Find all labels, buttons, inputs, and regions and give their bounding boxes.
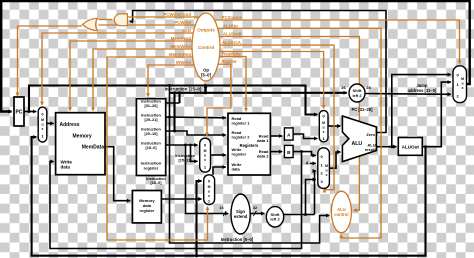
wire Read data 1 to A register	[270, 135, 282, 137]
svg-text:Registers: Registers	[240, 143, 259, 148]
svg-text:M: M	[461, 77, 464, 81]
PC register	[14, 97, 24, 126]
svg-text:x: x	[204, 158, 206, 162]
svg-text:ALUSrcB: ALUSrcB	[223, 32, 242, 37]
svg-text:[20–16]: [20–16]	[144, 132, 158, 136]
ALUSrcB mux	[318, 148, 330, 189]
node instruction bus junction b	[173, 130, 176, 133]
svg-text:[15–0]: [15–0]	[151, 181, 163, 185]
MemtoReg mux	[204, 175, 215, 205]
svg-text:register: register	[140, 208, 155, 213]
svg-text:M: M	[41, 118, 44, 122]
wire Instruction[15-11] jog to RegDst mux input 1	[191, 145, 198, 161]
wire MemtoReg mux output to Write data	[213, 167, 226, 175]
ALU control oval	[331, 191, 351, 233]
svg-text:MemtoReg: MemtoReg	[169, 52, 191, 57]
B register	[284, 145, 293, 157]
svg-text:[15–0]: [15–0]	[146, 146, 158, 150]
svg-text:[25–21]: [25–21]	[144, 118, 158, 122]
svg-text:[5–0]: [5–0]	[201, 73, 211, 78]
svg-text:RegDst: RegDst	[222, 59, 238, 64]
wire Instruction[31-26] from IR	[166, 102, 180, 104]
wire A register to ALUSrcA mux input 1	[293, 134, 317, 139]
svg-text:ALUSrcA: ALUSrcA	[222, 40, 241, 45]
wire PCWrite control to OR gate	[99, 24, 196, 26]
svg-text:PCWriteCond: PCWriteCond	[163, 12, 191, 17]
ALUSrcA mux	[319, 111, 328, 142]
svg-text:MemWrite: MemWrite	[171, 44, 192, 49]
wire shift left 2 output to ALUSrcB mux inputs	[284, 214, 315, 216]
wire Op[5-0] riser into Control	[204, 84, 207, 93]
svg-text:x: x	[208, 194, 210, 198]
svg-text:IRWrite: IRWrite	[176, 60, 191, 65]
svg-text:ALUOut: ALUOut	[402, 145, 420, 150]
svg-text:PCWrite: PCWrite	[174, 20, 191, 25]
ALUOut register	[398, 138, 422, 156]
wire sign extend output to shift left 2	[250, 213, 264, 215]
svg-text:IorD: IorD	[182, 28, 191, 33]
svg-text:address [31–0]: address [31–0]	[408, 88, 437, 93]
svg-text:data 2: data 2	[257, 153, 269, 158]
wire instruction bus vertical b	[173, 93, 175, 131]
node Op[5-0] tap on instruction bus	[204, 91, 207, 94]
wire ALUSrcB control to ALUSrcB mux bottom	[220, 45, 334, 190]
memory block	[56, 113, 105, 175]
wire Read data 2 to B register	[270, 151, 282, 153]
wire Instruction[15-0] drop to sign extend	[186, 145, 229, 214]
wire RegDst mux output to Write register	[211, 154, 226, 156]
wire ALUSrcA control down to ALUSrcA mux	[220, 52, 324, 109]
svg-text:u: u	[323, 126, 325, 130]
instruction register	[136, 99, 165, 176]
wire PC bus up and right to ALUSrcA mux input 0	[29, 86, 317, 115]
svg-text:[15–11]: [15–11]	[179, 159, 193, 163]
svg-text:left 2: left 2	[352, 93, 362, 98]
ALU	[342, 116, 376, 162]
shift left 2 oval (branch)	[266, 207, 283, 227]
svg-text:M: M	[208, 185, 211, 189]
svg-text:x: x	[462, 86, 464, 90]
svg-text:x: x	[42, 127, 44, 131]
svg-text:M: M	[204, 149, 207, 153]
wire ALUOut output to PCSource mux input 1	[422, 82, 451, 147]
svg-text:Instruction: Instruction	[175, 154, 195, 158]
svg-text:extend: extend	[234, 214, 248, 219]
svg-text:data: data	[232, 167, 241, 172]
svg-text:x: x	[323, 130, 325, 134]
wire IRWrite control down to instruction register	[148, 65, 194, 97]
RegDst mux	[200, 138, 211, 172]
svg-text:u: u	[41, 123, 43, 127]
wire IorD mux output to memory Address	[47, 122, 54, 124]
svg-text:M: M	[325, 164, 328, 168]
svg-text:register: register	[144, 166, 159, 171]
wire ALUSrcA mux output to ALU	[328, 125, 340, 127]
wire PC-feedback from PCSource mux around top edge to PC	[1, 1, 470, 112]
wire RegWrite control down to Registers	[219, 57, 246, 112]
svg-text:u: u	[204, 154, 206, 158]
svg-text:result: result	[365, 147, 377, 152]
svg-text:ALU: ALU	[352, 141, 363, 147]
svg-text:[31–26]: [31–26]	[144, 104, 158, 108]
node instruction bus junction d	[178, 91, 181, 94]
wire B register to ALUSrcB mux input 0	[293, 152, 316, 156]
wire MemData to memory data register	[105, 147, 130, 201]
svg-text:u: u	[326, 169, 328, 173]
OR gate (PCWrite OR ...), pointing left	[83, 18, 98, 30]
wire MemWrite control down to memory	[93, 49, 192, 111]
svg-text:26: 26	[341, 85, 346, 90]
svg-text:MemRead: MemRead	[171, 36, 192, 41]
wire ALUOp control around bottom to ALU control	[218, 28, 381, 238]
wire PC output to IorD mux input 0	[24, 111, 36, 113]
wire ALUSrcB mux output to ALU	[329, 152, 340, 168]
shift left 2 oval (jump)	[349, 84, 365, 102]
wire AND gate output to OR gate input	[99, 19, 113, 21]
svg-text:ALUOp: ALUOp	[223, 23, 238, 28]
svg-text:PCSource: PCSource	[222, 15, 243, 20]
svg-text:Outputs: Outputs	[197, 28, 215, 33]
svg-text:data: data	[61, 164, 71, 169]
svg-text:Instruction [25–0]: Instruction [25–0]	[165, 87, 202, 92]
wire ALUOp control b to ALU control right side	[219, 37, 359, 211]
wire riser to ALUSrcB mux input 3	[306, 180, 316, 215]
svg-text:32: 32	[253, 206, 257, 210]
AND gate (PCWriteCond AND Zero), pointing left	[114, 14, 127, 26]
wire Instruction[25-21] from IR to Read register 1	[166, 116, 226, 119]
svg-text:Zero: Zero	[366, 132, 375, 137]
svg-text:28: 28	[366, 85, 371, 90]
wire RegDst control down to RegDst mux	[207, 64, 231, 136]
svg-text:Memory: Memory	[73, 133, 92, 139]
wire Instruction[20-16] from IR to Read register 2	[166, 131, 226, 135]
svg-text:MemData: MemData	[82, 144, 104, 150]
svg-text:PC: PC	[16, 110, 23, 116]
wire Zero from ALU up right and along top to AND gate	[130, 11, 386, 133]
node PC output branch	[28, 110, 31, 113]
svg-text:u: u	[462, 82, 464, 86]
node B register output branch	[300, 150, 303, 153]
control unit oval	[192, 13, 220, 81]
svg-text:16: 16	[219, 206, 223, 210]
svg-text:register 1: register 1	[232, 121, 251, 126]
svg-text:PC [31–28]: PC [31–28]	[352, 107, 374, 112]
wire ALUOut bottom feedback riser to MemtoReg mux input 0	[197, 181, 202, 256]
wire Instruction[25-0] bus to jump shift-left-2	[170, 92, 347, 94]
wire shift-out extension riser to ALUSrcB mux input 2	[315, 171, 316, 215]
wire constant 4 to ALUSrcB mux input 1	[310, 162, 316, 164]
node instruction bus junction a	[168, 116, 171, 119]
svg-text:x: x	[326, 173, 328, 177]
wire ALU result to ALUOut register	[376, 146, 396, 148]
wire ALU result riser to PCSource mux input 0	[392, 75, 451, 147]
PCSource mux	[453, 66, 467, 103]
wire MemRead control down to memory	[70, 41, 192, 111]
node instruction bus junction e	[168, 84, 171, 87]
wire MemtoReg control around bottom to MemtoReg mux	[107, 57, 208, 240]
A register	[284, 128, 293, 140]
svg-text:control: control	[334, 212, 348, 217]
svg-text:register 2: register 2	[232, 134, 251, 139]
node ALU result branch to PCSource mux	[390, 145, 393, 148]
wire instruction bus vertical a with drop to Instruction[5-0] bottom run to ALU control	[170, 86, 330, 244]
node ALUOut feedback branch to MemtoReg mux	[195, 254, 198, 257]
svg-text:Control: Control	[198, 45, 214, 50]
svg-text:left 2: left 2	[270, 217, 280, 222]
sign extend oval	[231, 194, 250, 234]
node instruction bus junction c	[173, 91, 176, 94]
IorD mux	[38, 107, 47, 142]
wire memory data register output to MemtoReg mux input 1	[161, 198, 201, 200]
wire OR gate output down to PC write enable	[18, 26, 83, 96]
node shift-left-2 output branch	[304, 213, 307, 216]
svg-text:Address: Address	[60, 122, 80, 128]
wire jump address to PCSource mux input 2	[365, 93, 451, 96]
svg-text:data 1: data 1	[257, 138, 269, 143]
wire instruction bus vertical c	[178, 93, 180, 103]
wire PCSource control to PCSource mux	[215, 20, 460, 64]
node Instruction[15-11] branch	[189, 144, 192, 147]
svg-text:u: u	[208, 190, 210, 194]
wire PCWriteCond control to AND gate	[128, 16, 200, 18]
wire B branch down and around to memory Write data	[50, 152, 302, 249]
wire Instruction[15-0] from IR to RegDst mux input 0	[166, 144, 198, 146]
node Instruction[15-0] branch to sign extend	[184, 144, 187, 147]
wire IorD control down to IorD mux	[42, 33, 193, 105]
wire ALUOut feedback along bottom to IorD mux input 1	[32, 137, 426, 256]
svg-text:M: M	[322, 121, 325, 125]
memory data register	[132, 191, 161, 223]
node ALUOut output branch to bottom feedback	[424, 145, 427, 148]
registers block	[228, 113, 270, 175]
svg-text:RegWrite: RegWrite	[222, 52, 241, 57]
svg-text:register: register	[232, 152, 247, 157]
svg-text:Instruction [5–0]: Instruction [5–0]	[221, 237, 254, 242]
